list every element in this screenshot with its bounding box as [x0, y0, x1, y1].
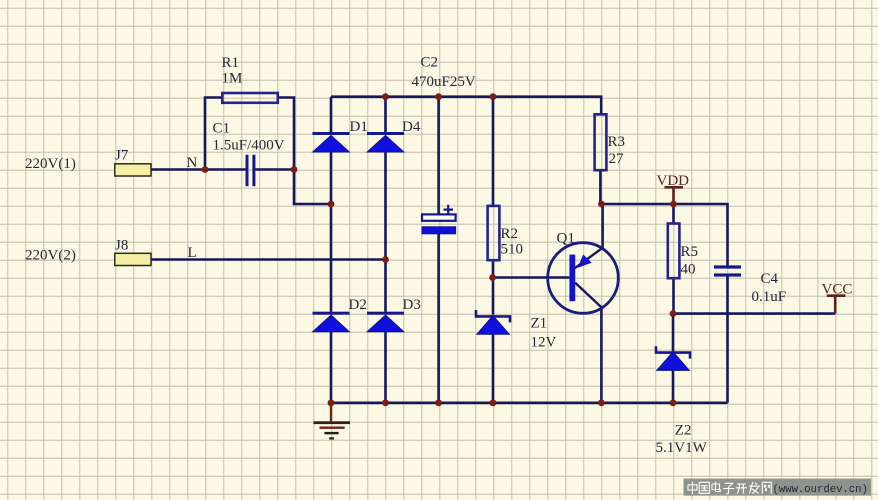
node ground bus Q1 junction — [598, 399, 605, 406]
svg-text:D4: D4 — [402, 119, 421, 135]
svg-text:1M: 1M — [222, 71, 243, 87]
diode D4 — [367, 132, 404, 152]
svg-text:40: 40 — [681, 262, 696, 278]
svg-text:220V(1): 220V(1) — [25, 156, 76, 172]
node N junction — [202, 166, 209, 173]
svg-text:N: N — [187, 155, 198, 171]
node ground bus Z1 junction — [490, 399, 497, 406]
svg-text:J7: J7 — [115, 148, 129, 164]
wire C1 right to riser — [255, 168, 294, 171]
capacitor C2 (electrolytic) — [412, 55, 476, 234]
wire Q1 emitter riser — [601, 204, 604, 248]
node ground bus D3 junction — [382, 399, 389, 406]
watermark hanzi 电 — [712, 482, 720, 492]
svg-text:Q1: Q1 — [557, 231, 575, 247]
svg-text:C2: C2 — [421, 55, 439, 71]
wire VCC rail — [673, 312, 835, 315]
node VCC rail junction — [670, 310, 677, 317]
capacitor C1 — [213, 121, 285, 187]
svg-text:1.5uF/400V: 1.5uF/400V — [213, 138, 285, 154]
transistor Q1 — [548, 231, 619, 314]
resistor R3 — [595, 114, 625, 170]
svg-text:27: 27 — [609, 151, 625, 167]
svg-text:D2: D2 — [349, 297, 367, 313]
svg-text:C1: C1 — [213, 121, 231, 137]
watermark hanzi 发 — [749, 482, 760, 494]
node base/zener junction — [489, 274, 496, 281]
wire R1 right down to bridge AC node — [278, 98, 331, 205]
svg-text:Z1: Z1 — [531, 316, 548, 332]
svg-text:0.1uF: 0.1uF — [752, 289, 787, 305]
svg-text:12V: 12V — [531, 335, 557, 351]
power port VDD — [657, 173, 690, 204]
diode D1 — [313, 132, 350, 152]
node VDD rail R3 junction — [598, 201, 605, 208]
wire Q1 collector drop — [600, 307, 603, 403]
resistor R2 — [488, 206, 523, 260]
wire bridge column A — [330, 97, 333, 403]
node top bus C2 junction — [435, 93, 442, 100]
svg-text:VDD: VDD — [657, 173, 690, 189]
capacitor C4 — [714, 265, 786, 305]
connector J8 — [115, 238, 151, 266]
svg-text:L: L — [188, 245, 197, 261]
svg-text:D3: D3 — [403, 297, 421, 313]
node C1 output junction — [291, 166, 298, 173]
node VDD rail R5 junction — [670, 201, 677, 208]
wire R2 column — [492, 97, 495, 278]
node top bus R2 junction — [490, 93, 497, 100]
svg-text:J8: J8 — [115, 238, 128, 254]
wire C4 bottom drop — [726, 276, 729, 403]
diode D3 — [367, 312, 404, 332]
svg-text:R5: R5 — [681, 244, 699, 260]
wire N riser to R1 left — [205, 98, 222, 170]
wire J7 to C1 left (net N) — [151, 168, 246, 171]
wire VDD rail to C4 — [601, 204, 727, 266]
svg-text:D1: D1 — [350, 119, 368, 135]
zener Z2 — [656, 346, 690, 370]
watermark hanzi 国 — [699, 482, 709, 493]
svg-text:510: 510 — [501, 242, 524, 258]
svg-text:VCC: VCC — [822, 282, 853, 298]
wire bridge column B — [384, 97, 387, 403]
ground — [314, 403, 351, 440]
wire J8 L to bridge — [151, 258, 386, 261]
svg-text:C4: C4 — [761, 271, 779, 287]
watermark hanzi 网 — [762, 482, 771, 493]
watermark box — [684, 479, 872, 496]
node ground bus C2 junction — [435, 399, 442, 406]
wire top bus to R3 — [331, 97, 601, 115]
wire R3 bottom — [599, 170, 602, 204]
wire C2 column — [437, 97, 440, 403]
svg-text:Z2: Z2 — [675, 423, 692, 439]
connector J7 — [115, 148, 151, 177]
node bridge AC2 junction (L) — [382, 256, 389, 263]
svg-text:R2: R2 — [501, 226, 519, 242]
diode D2 — [313, 312, 350, 332]
power port VCC — [822, 282, 853, 314]
svg-text:R1: R1 — [222, 55, 240, 71]
watermark hanzi 子 — [723, 483, 734, 494]
svg-text:5.1V1W: 5.1V1W — [656, 440, 708, 456]
svg-text:470uF25V: 470uF25V — [412, 74, 476, 90]
node ground bus left junction — [328, 399, 335, 406]
node top bus D4 junction — [382, 93, 389, 100]
watermark hanzi 中 — [688, 482, 697, 495]
resistor R5 — [668, 224, 698, 279]
svg-text:220V(2): 220V(2) — [25, 248, 76, 264]
svg-text:(www.ourdev.cn): (www.ourdev.cn) — [773, 484, 868, 496]
watermark hanzi 开 — [736, 484, 747, 494]
wire Z2 column — [672, 314, 675, 403]
resistor R1 — [222, 55, 278, 103]
wire ground bus — [331, 401, 728, 404]
wire Z1 column — [492, 278, 495, 404]
zener Z1 — [476, 310, 510, 334]
wire R5 column — [672, 204, 675, 314]
node bridge AC1 junction — [328, 201, 335, 208]
svg-text:R3: R3 — [608, 134, 626, 150]
node ground bus Z2 junction — [670, 399, 677, 406]
wire Q1 base — [493, 276, 569, 279]
